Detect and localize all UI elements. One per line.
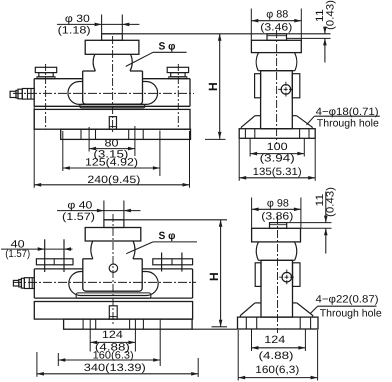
lower pad strip bottom front view [76, 293, 151, 298]
right bolt centerline [177, 64, 179, 130]
svg-text:φ 40: φ 40 [67, 199, 92, 211]
steel ball bottom side view [256, 242, 258, 260]
load boss side view [267, 34, 287, 41]
right tab side view [292, 74, 300, 98]
dimension 340 line [37, 373, 198, 375]
160 extension lines [57, 353, 59, 366]
left clamp bolt front view [35, 67, 56, 72]
H bottom reference line bottom view [212, 326, 228, 328]
base plate bottom side view [238, 317, 319, 329]
steel ball front view [93, 54, 95, 71]
load boss phi40 front view [104, 220, 124, 228]
dimension 11 arrows [324, 27, 326, 34]
svg-text:H: H [206, 82, 220, 91]
steel ball side view [256, 53, 258, 71]
projection line from boss top to side view [102, 33, 331, 35]
side hole with crosshair bottom view [282, 272, 292, 282]
dimension H line bottom view [220, 220, 222, 327]
svg-text:(3.94): (3.94) [260, 153, 295, 165]
pressure cap bottom front view [85, 228, 141, 242]
dimension 135 line [239, 177, 315, 179]
dimension phi98 line [252, 208, 301, 210]
dimension phi30 line [57, 23, 139, 25]
center pin in base front view [109, 117, 116, 130]
svg-text:(3.86): (3.86) [261, 211, 293, 223]
svg-text:340(13.39): 340(13.39) [84, 362, 146, 374]
svg-text:124: 124 [102, 329, 123, 341]
dimension 100 line [250, 153, 304, 155]
dimension 11 extension line [287, 37, 331, 39]
left bolt washer [37, 77, 55, 79]
dimension 240 line [34, 184, 189, 186]
centerline vertical axis top front view [112, 36, 114, 133]
svg-text:S φ: S φ [159, 230, 176, 242]
100 extension lines [249, 139, 251, 157]
pressure cap bottom side view [252, 228, 301, 242]
svg-text:(1.57): (1.57) [5, 248, 30, 260]
centerline vertical axis bottom side view [277, 216, 279, 333]
svg-text:124: 124 [264, 334, 285, 346]
body outer block front view [34, 78, 82, 80]
foot plate washer ticks bottom view [82, 319, 84, 329]
side hole with crosshair [281, 85, 291, 95]
foot plate front view [61, 129, 191, 139]
svg-text:240(9.45): 240(9.45) [87, 174, 140, 186]
screw hole circle on block [109, 264, 117, 272]
column body bottom side view [261, 260, 293, 317]
240 extension lines [33, 106, 35, 188]
svg-text:φ 30: φ 30 [65, 13, 90, 25]
centerline horizontal axis top front view [13, 92, 194, 94]
dimension phi88 line [251, 20, 301, 22]
pressure cap top front view [85, 40, 139, 54]
svg-text:Through hole: Through hole [317, 118, 379, 130]
dimension 160 line [58, 359, 160, 361]
dimension H line [219, 34, 221, 139]
pedestal ledges and slants side view [255, 115, 261, 117]
dimension phi40 line [57, 210, 141, 212]
cable gland bottom front view [13, 280, 18, 286]
center block bottom front view [83, 258, 93, 260]
svg-text:160(6,3): 160(6,3) [255, 364, 299, 376]
dimension 124 line bottom right [252, 347, 306, 349]
dimension 160 line bottom right [238, 377, 317, 379]
boss top extension line bottom side view [287, 222, 332, 224]
svg-text:(4.88): (4.88) [259, 350, 294, 362]
through hole edges in base plate [244, 129, 246, 139]
svg-text:Through hole: Through hole [320, 308, 382, 320]
through hole edges in base plate bottom view [245, 317, 247, 329]
124 extension lines [89, 320, 91, 352]
svg-text:(0.43): (0.43) [325, 187, 337, 217]
svg-text:(1.57): (1.57) [62, 211, 95, 223]
foot plate washer ticks [80, 129, 82, 139]
body outer block bottom front view [34, 268, 83, 270]
svg-text:(3.46): (3.46) [260, 22, 292, 34]
right bolt washer [169, 77, 187, 79]
phi88 extension lines [250, 9, 252, 41]
centerline horizontal axis bottom front view [13, 281, 196, 283]
left tab side view [255, 74, 261, 98]
load boss bottom side view [270, 223, 287, 229]
left top plate strip [36, 259, 73, 265]
steel ball bottom front view [91, 241, 93, 259]
dimension 11 arrows bottom view [325, 192, 327, 223]
dimension 124 line [90, 341, 135, 343]
beam stadium outline bottom front view [69, 272, 158, 296]
S phi leader line bottom view [153, 241, 197, 243]
svg-text:φ 98: φ 98 [267, 198, 289, 210]
lower pad strip front view [80, 104, 145, 108]
base block bottom front view [34, 302, 192, 320]
ground line continuation [192, 328, 237, 330]
center pin in base bottom front view [109, 306, 117, 319]
load boss phi30 front view [102, 34, 123, 41]
svg-text:125(4.92): 125(4.92) [85, 157, 138, 169]
right tab bottom side view [293, 263, 301, 287]
left mounting rod pair [44, 239, 46, 272]
80 extension lines [88, 127, 90, 152]
centerline vertical axis bottom front view [112, 214, 114, 325]
svg-text:H: H [207, 272, 221, 281]
column body side view [261, 71, 293, 129]
base plate side view [239, 129, 315, 139]
340 extension lines [36, 352, 38, 377]
pressure cap side view [251, 40, 301, 52]
H bottom reference line [205, 138, 226, 140]
foot plate bottom front view [64, 319, 193, 329]
cap top extension line bottom side view [301, 227, 332, 229]
base block front view [34, 109, 190, 129]
pedestal ledges and slants bottom side view [255, 302, 261, 304]
right top plate strip [153, 259, 193, 265]
svg-text:100: 100 [267, 141, 288, 153]
dimension 40 line [1, 248, 73, 250]
phi30 extension lines [101, 15, 103, 34]
dimension 80 line [89, 148, 135, 150]
phi98 extension lines [251, 198, 253, 229]
svg-text:(0.43): (0.43) [324, 0, 336, 30]
svg-text:4−φ22(0.87): 4−φ22(0.87) [316, 294, 379, 306]
svg-text:135(5.31): 135(5.31) [253, 166, 302, 178]
right clamp bolt front view [167, 67, 188, 72]
center block of beam front view [83, 70, 96, 72]
right mounting rod pair [161, 253, 163, 272]
125 extension lines [62, 131, 64, 171]
124 extension lines bottom right [251, 330, 253, 352]
S phi leader line [153, 51, 187, 53]
centerline vertical axis top side view [276, 30, 278, 144]
dimension 125 line [63, 167, 160, 169]
projection line from boss top bottom view [104, 219, 227, 221]
phi40 extension lines [103, 201, 105, 220]
svg-text:φ 88: φ 88 [266, 9, 288, 21]
beam stadium outline front view [68, 82, 158, 105]
left tab bottom side view [255, 263, 261, 287]
svg-text:S φ: S φ [159, 41, 176, 53]
160 extension lines bottom right [237, 330, 239, 381]
cable gland front view [10, 91, 16, 97]
svg-text:(1.18): (1.18) [58, 25, 91, 37]
135 extension lines [238, 139, 240, 181]
left bolt centerline [45, 64, 47, 130]
